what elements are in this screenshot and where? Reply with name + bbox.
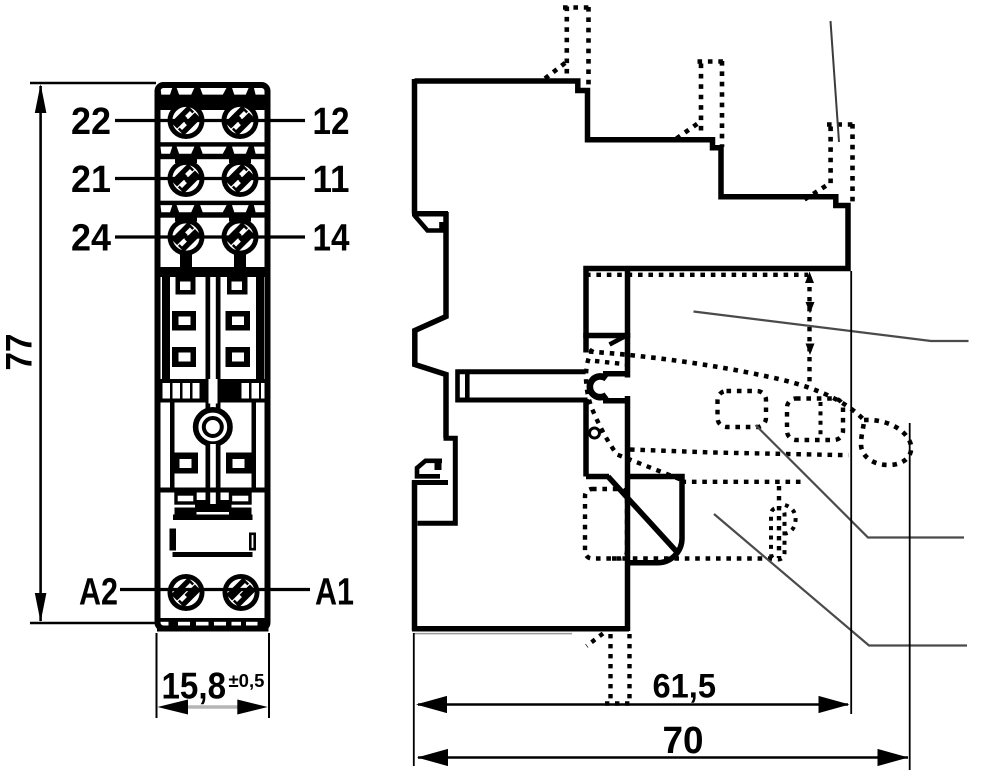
central circle inner ring <box>204 418 222 436</box>
contact window row1 right <box>227 277 248 295</box>
band under cluster <box>173 515 253 521</box>
left wall upper <box>412 79 418 214</box>
notch diagonal under wall rect <box>610 336 627 345</box>
contact window row4 left <box>173 453 198 474</box>
retaining clip hidden outline (upper curve) <box>589 352 864 421</box>
slot upper lip <box>603 371 630 377</box>
dim 15,8 extension left <box>156 633 158 718</box>
screw 24 <box>168 219 205 256</box>
svg-text:77: 77 <box>0 334 40 371</box>
clip hidden small window C <box>771 508 785 560</box>
front face vertical lower <box>625 396 631 631</box>
shelf line <box>161 488 265 493</box>
label window right tab <box>250 534 254 549</box>
divider band 1 (between rows 1-2) <box>161 142 265 159</box>
dim 70 right arrow <box>878 749 909 766</box>
middle band <box>161 267 265 277</box>
screw necks row 3 <box>175 216 197 222</box>
svg-text:61,5: 61,5 <box>653 668 717 706</box>
screw 21 <box>168 160 205 197</box>
dim 15,8 shaft <box>180 705 246 709</box>
dim 15,8 left arrow <box>158 700 189 715</box>
top black band with white trapezoid vents <box>161 85 265 110</box>
front face vertical upper <box>625 333 631 378</box>
contact window row4 right <box>226 453 253 474</box>
contact window row2 right <box>226 311 251 331</box>
front wall segment below arm <box>583 399 589 477</box>
lower left outlined box <box>176 494 195 503</box>
relay bottom hidden line <box>586 273 808 277</box>
clip bottom tab hidden diagonal <box>587 634 604 647</box>
label window bottom line <box>173 552 253 557</box>
socket outer border <box>158 85 268 629</box>
socket body fill <box>158 85 268 629</box>
middle section right bar <box>256 277 264 382</box>
front wall segment above arm <box>583 333 589 353</box>
lever pivot ring (C shape) <box>590 376 607 397</box>
extension line 70 right <box>909 423 911 770</box>
central shaft upper <box>206 277 221 412</box>
dimension 77 arrow down <box>35 593 47 622</box>
lower left solid bar <box>175 508 197 516</box>
relay wire tower 1 <box>545 7 591 90</box>
wire leader line <box>831 21 840 142</box>
lower DIN hook <box>417 461 442 477</box>
svg-text:70: 70 <box>663 720 704 762</box>
clip tip loop <box>861 420 911 465</box>
bottom band with dashes <box>157 618 269 632</box>
clip diagonal <box>608 477 677 552</box>
screw 12 <box>222 102 259 139</box>
callout line 1 <box>694 312 969 342</box>
clip housing J shape <box>625 477 682 563</box>
dimension 77 vertical line <box>39 86 42 621</box>
dim 15,8 extension right <box>268 633 270 718</box>
divider band 2 (between rows 2-3) <box>161 201 265 218</box>
socket bottom edge <box>412 626 629 632</box>
dimension 77 top tick <box>30 82 156 84</box>
insertion travel dotted dimension <box>807 277 811 385</box>
svg-text:22: 22 <box>71 101 111 143</box>
clip hidden small arc <box>785 505 796 534</box>
label window left tab <box>170 529 177 551</box>
dimension 77 arrow up <box>35 84 47 113</box>
svg-text:A2: A2 <box>79 572 118 614</box>
bottom shadow line <box>414 633 572 635</box>
clip hidden lower edge <box>682 480 803 484</box>
lower right solid bar <box>229 508 252 516</box>
callout line 3 <box>714 514 967 646</box>
stubs above middle band <box>180 252 192 268</box>
screw necks row 1 <box>172 105 200 118</box>
jog to diagonal <box>586 474 609 480</box>
mid vertical with rail bump <box>415 212 446 438</box>
contact window row3 right <box>226 347 251 367</box>
leader line row 24/14 <box>115 235 305 238</box>
dim 61,5 left arrow <box>416 696 447 713</box>
callout line 2 <box>756 425 965 538</box>
clip hidden mid line <box>630 450 849 456</box>
clip hidden window A <box>718 391 767 427</box>
clip hidden window B <box>787 399 843 441</box>
svg-text:15,8: 15,8 <box>162 666 227 707</box>
dim 70 line <box>418 756 908 758</box>
dimension 77 bottom tick <box>30 622 156 624</box>
screw 11 <box>222 160 259 197</box>
central circle outer ring <box>196 410 230 444</box>
pedestal <box>195 500 232 512</box>
clip bottom tab hidden left <box>608 634 612 704</box>
clip hidden second line <box>595 361 628 365</box>
relay wire tower 3 <box>805 124 856 202</box>
middle section left bar <box>162 277 170 382</box>
upper DIN hook <box>415 216 442 231</box>
svg-text:24: 24 <box>71 218 111 260</box>
upper DIN tab ledge <box>412 211 448 217</box>
clip hidden frame left of housing <box>585 489 627 559</box>
clip hidden vertical <box>777 486 781 558</box>
svg-text:12: 12 <box>313 101 350 143</box>
central shaft lower <box>206 442 221 504</box>
contact window row1 left <box>176 277 196 295</box>
small hole below pivot <box>590 428 600 438</box>
lower DIN hook inner block <box>435 462 442 471</box>
extension line left <box>413 633 415 766</box>
svg-text:21: 21 <box>71 159 111 201</box>
extension line 61,5 right <box>850 271 852 714</box>
screw A2 <box>168 574 205 611</box>
svg-text:11: 11 <box>313 159 350 201</box>
step to lower right vertical <box>418 438 456 523</box>
contact window row3 left <box>172 347 196 367</box>
screw 14 <box>222 219 259 256</box>
screw necks row 2 <box>175 157 197 163</box>
clip bottom tab hidden right <box>627 634 631 704</box>
leader line row 21/11 <box>115 177 305 180</box>
release lever arm bottom <box>456 398 588 403</box>
leader line row 22/12 <box>115 119 305 122</box>
clip hidden bottom line <box>612 556 772 560</box>
lower ledge <box>412 480 448 485</box>
slot lower lip <box>603 398 629 404</box>
dim 61,5 line <box>418 703 848 705</box>
lever arm left end caps <box>458 370 468 403</box>
screw 22 <box>168 102 205 139</box>
lower right outlined box <box>231 494 251 503</box>
svg-text:±0,5: ±0,5 <box>229 670 265 691</box>
screw A1 <box>223 574 260 611</box>
comb band <box>161 379 265 403</box>
contact window row2 left <box>172 311 196 331</box>
staircase top profile of socket <box>415 81 849 336</box>
relay wire tower 2 <box>677 61 725 147</box>
dim 70 left arrow <box>417 749 448 766</box>
left wall lower <box>412 481 418 631</box>
dim 15,8 right arrow <box>237 700 267 715</box>
clip hidden outline around pivot <box>586 349 682 480</box>
svg-text:A1: A1 <box>315 572 354 614</box>
clip bottom tab hidden cap <box>605 701 634 705</box>
svg-text:14: 14 <box>313 218 350 260</box>
release lever arm top <box>456 369 586 374</box>
clip hidden window B divider <box>819 402 823 437</box>
rails below comb <box>170 402 175 488</box>
dim 61,5 right arrow <box>819 696 850 713</box>
leader line row A2/A1 <box>120 588 310 591</box>
